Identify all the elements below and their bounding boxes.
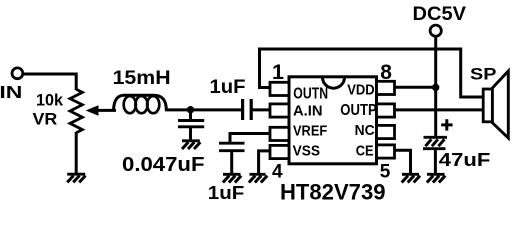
svg-text:47uF: 47uF bbox=[439, 150, 491, 170]
speaker SP bbox=[483, 71, 508, 138]
svg-text:0.047uF: 0.047uF bbox=[122, 153, 205, 176]
svg-text:VSS: VSS bbox=[293, 143, 320, 160]
wire inductor to C1 bbox=[165, 108, 242, 111]
capacitor C3 1uF (VREF bypass) bbox=[219, 143, 245, 151]
ground (VSS) bbox=[249, 174, 267, 182]
svg-text:SP: SP bbox=[470, 64, 497, 83]
top rail wire OUTN to speaker bbox=[258, 49, 482, 97]
svg-text:CE: CE bbox=[356, 142, 374, 159]
svg-text:IN: IN bbox=[0, 82, 22, 102]
ground (C2) bbox=[182, 141, 200, 149]
wire VSS to ground bbox=[259, 151, 270, 174]
wire junction down to C2 bbox=[189, 110, 192, 121]
svg-text:HT82V739: HT82V739 bbox=[280, 179, 386, 204]
DC5V terminal bbox=[430, 25, 441, 36]
svg-text:1uF: 1uF bbox=[208, 182, 245, 203]
wiper arrow of VR bbox=[86, 105, 116, 116]
capacitor C4 47uF electrolytic bbox=[423, 137, 447, 148]
svg-text:1: 1 bbox=[272, 60, 284, 84]
ground (VR) bbox=[67, 174, 85, 182]
svg-text:VREF: VREF bbox=[293, 123, 327, 139]
pin 8 pad bbox=[377, 81, 395, 94]
pin 5 pad bbox=[377, 145, 395, 158]
wire IN terminal to VR top bbox=[24, 74, 76, 90]
svg-text:A.IN: A.IN bbox=[293, 103, 323, 120]
svg-text:VR: VR bbox=[33, 110, 58, 129]
svg-text:10k: 10k bbox=[36, 91, 64, 110]
wire C4 to ground bbox=[434, 149, 437, 174]
plus sign C4 polarity bbox=[441, 119, 452, 130]
wire DC5V terminal down to C4 bbox=[434, 37, 437, 137]
svg-text:OUTN: OUTN bbox=[293, 85, 328, 102]
input terminal IN bbox=[12, 68, 23, 79]
pin 1 pad bbox=[270, 82, 289, 95]
IC U1 HT82V739 body bbox=[289, 77, 377, 164]
capacitor C1 1uF (series coupling) bbox=[243, 99, 252, 120]
wire CE to ground bbox=[395, 150, 411, 173]
capacitor C2 0.047uF bbox=[178, 121, 204, 127]
wire C2 to ground bbox=[189, 127, 192, 140]
pin 3 pad bbox=[270, 127, 289, 140]
pin 7 pad bbox=[377, 104, 395, 117]
svg-text:1uF: 1uF bbox=[210, 77, 246, 98]
inductor L1 15mH bbox=[114, 95, 167, 113]
wire C1 to pin A.IN bbox=[251, 108, 270, 111]
svg-text:DC5V: DC5V bbox=[413, 4, 467, 25]
potentiometer VR 10k (zigzag) bbox=[70, 89, 82, 132]
ground (C3) bbox=[223, 174, 241, 182]
pin 6 pad bbox=[377, 125, 395, 138]
node input junction bbox=[187, 106, 194, 113]
wire VDD pin to supply node bbox=[395, 86, 436, 89]
node VDD supply junction bbox=[432, 84, 439, 91]
ground (C4) bbox=[427, 174, 445, 182]
svg-text:OUTP: OUTP bbox=[340, 102, 376, 119]
pin 2 pad bbox=[270, 104, 289, 117]
wire OUTP pin to speaker bbox=[395, 108, 483, 111]
svg-text:8: 8 bbox=[380, 61, 392, 84]
wire VREF to C3 bbox=[230, 134, 270, 144]
ground (CE) bbox=[402, 174, 420, 182]
wire VR bottom to ground bbox=[75, 132, 78, 174]
svg-text:VDD: VDD bbox=[347, 82, 375, 99]
IC notch bbox=[323, 77, 345, 88]
wire OUTN pin to top rail bbox=[260, 49, 271, 88]
pin 4 pad bbox=[270, 145, 289, 158]
svg-text:NC: NC bbox=[355, 122, 375, 139]
wire C3 to ground bbox=[230, 151, 233, 174]
svg-text:15mH: 15mH bbox=[113, 68, 171, 89]
